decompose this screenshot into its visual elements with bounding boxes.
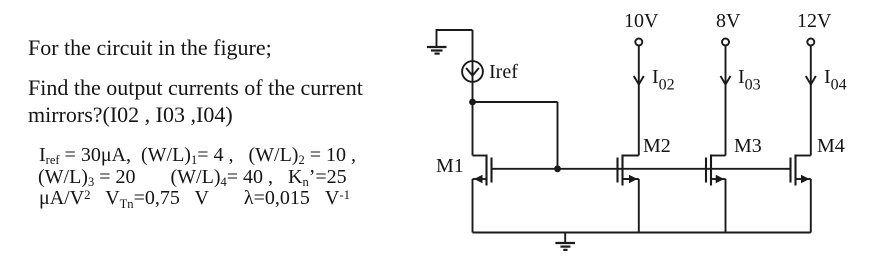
wire node A to M1 drain (472, 102, 474, 156)
wire 10V to M2 drain with current arrow I02 (634, 46, 644, 156)
wire M4 source down (810, 179, 812, 233)
svg-text:I02: I02 (652, 66, 675, 94)
transistor M2 (618, 155, 639, 186)
terminal 12V (797, 10, 832, 46)
transistor M3 (706, 155, 726, 186)
given values text line C (39, 188, 350, 210)
given values text line A (39, 145, 356, 167)
transistor M4 (791, 155, 811, 186)
wire M2 source down (638, 179, 640, 233)
svg-text:8V: 8V (716, 10, 741, 32)
current source Iref (462, 61, 483, 82)
transistor M1 (diode-connected, gate on right) (473, 155, 492, 186)
svg-text:M4: M4 (817, 135, 845, 157)
svg-text:M1: M1 (436, 155, 464, 177)
problem text line 1 (28, 37, 272, 59)
problem text line 3 (28, 104, 233, 126)
svg-text:M2: M2 (643, 135, 671, 157)
wire current source to node A (472, 82, 474, 102)
problem text line 2 (28, 77, 363, 99)
node B (junction dot on gate rail) (554, 165, 561, 172)
gate rail wire M1 to M4 (492, 168, 791, 170)
wire down to gate rail (557, 102, 559, 169)
terminal 8V (716, 10, 741, 46)
bottom source rail wire (473, 232, 811, 234)
given values text line B (38, 167, 347, 189)
wire ground to current source (472, 30, 474, 61)
ground GND1 (top-left) (427, 30, 473, 54)
svg-text:I04: I04 (824, 66, 847, 94)
svg-text:M3: M3 (734, 135, 762, 157)
svg-text:10V: 10V (624, 10, 659, 32)
terminal 10V (624, 10, 659, 46)
svg-text:I03: I03 (738, 66, 761, 94)
svg-text:Iref: Iref (489, 61, 518, 83)
ground GND0 (bottom) (555, 233, 575, 250)
wire 8V to M3 drain with current arrow I03 (721, 46, 731, 156)
wire M1 source down (472, 179, 474, 233)
node A (junction dot below Iref) (469, 99, 476, 106)
svg-text:12V: 12V (797, 10, 832, 32)
wire M3 source down (725, 179, 727, 233)
wire 12V to M4 drain with current arrow I04 (806, 46, 816, 156)
wire node A to gate column (473, 101, 558, 103)
